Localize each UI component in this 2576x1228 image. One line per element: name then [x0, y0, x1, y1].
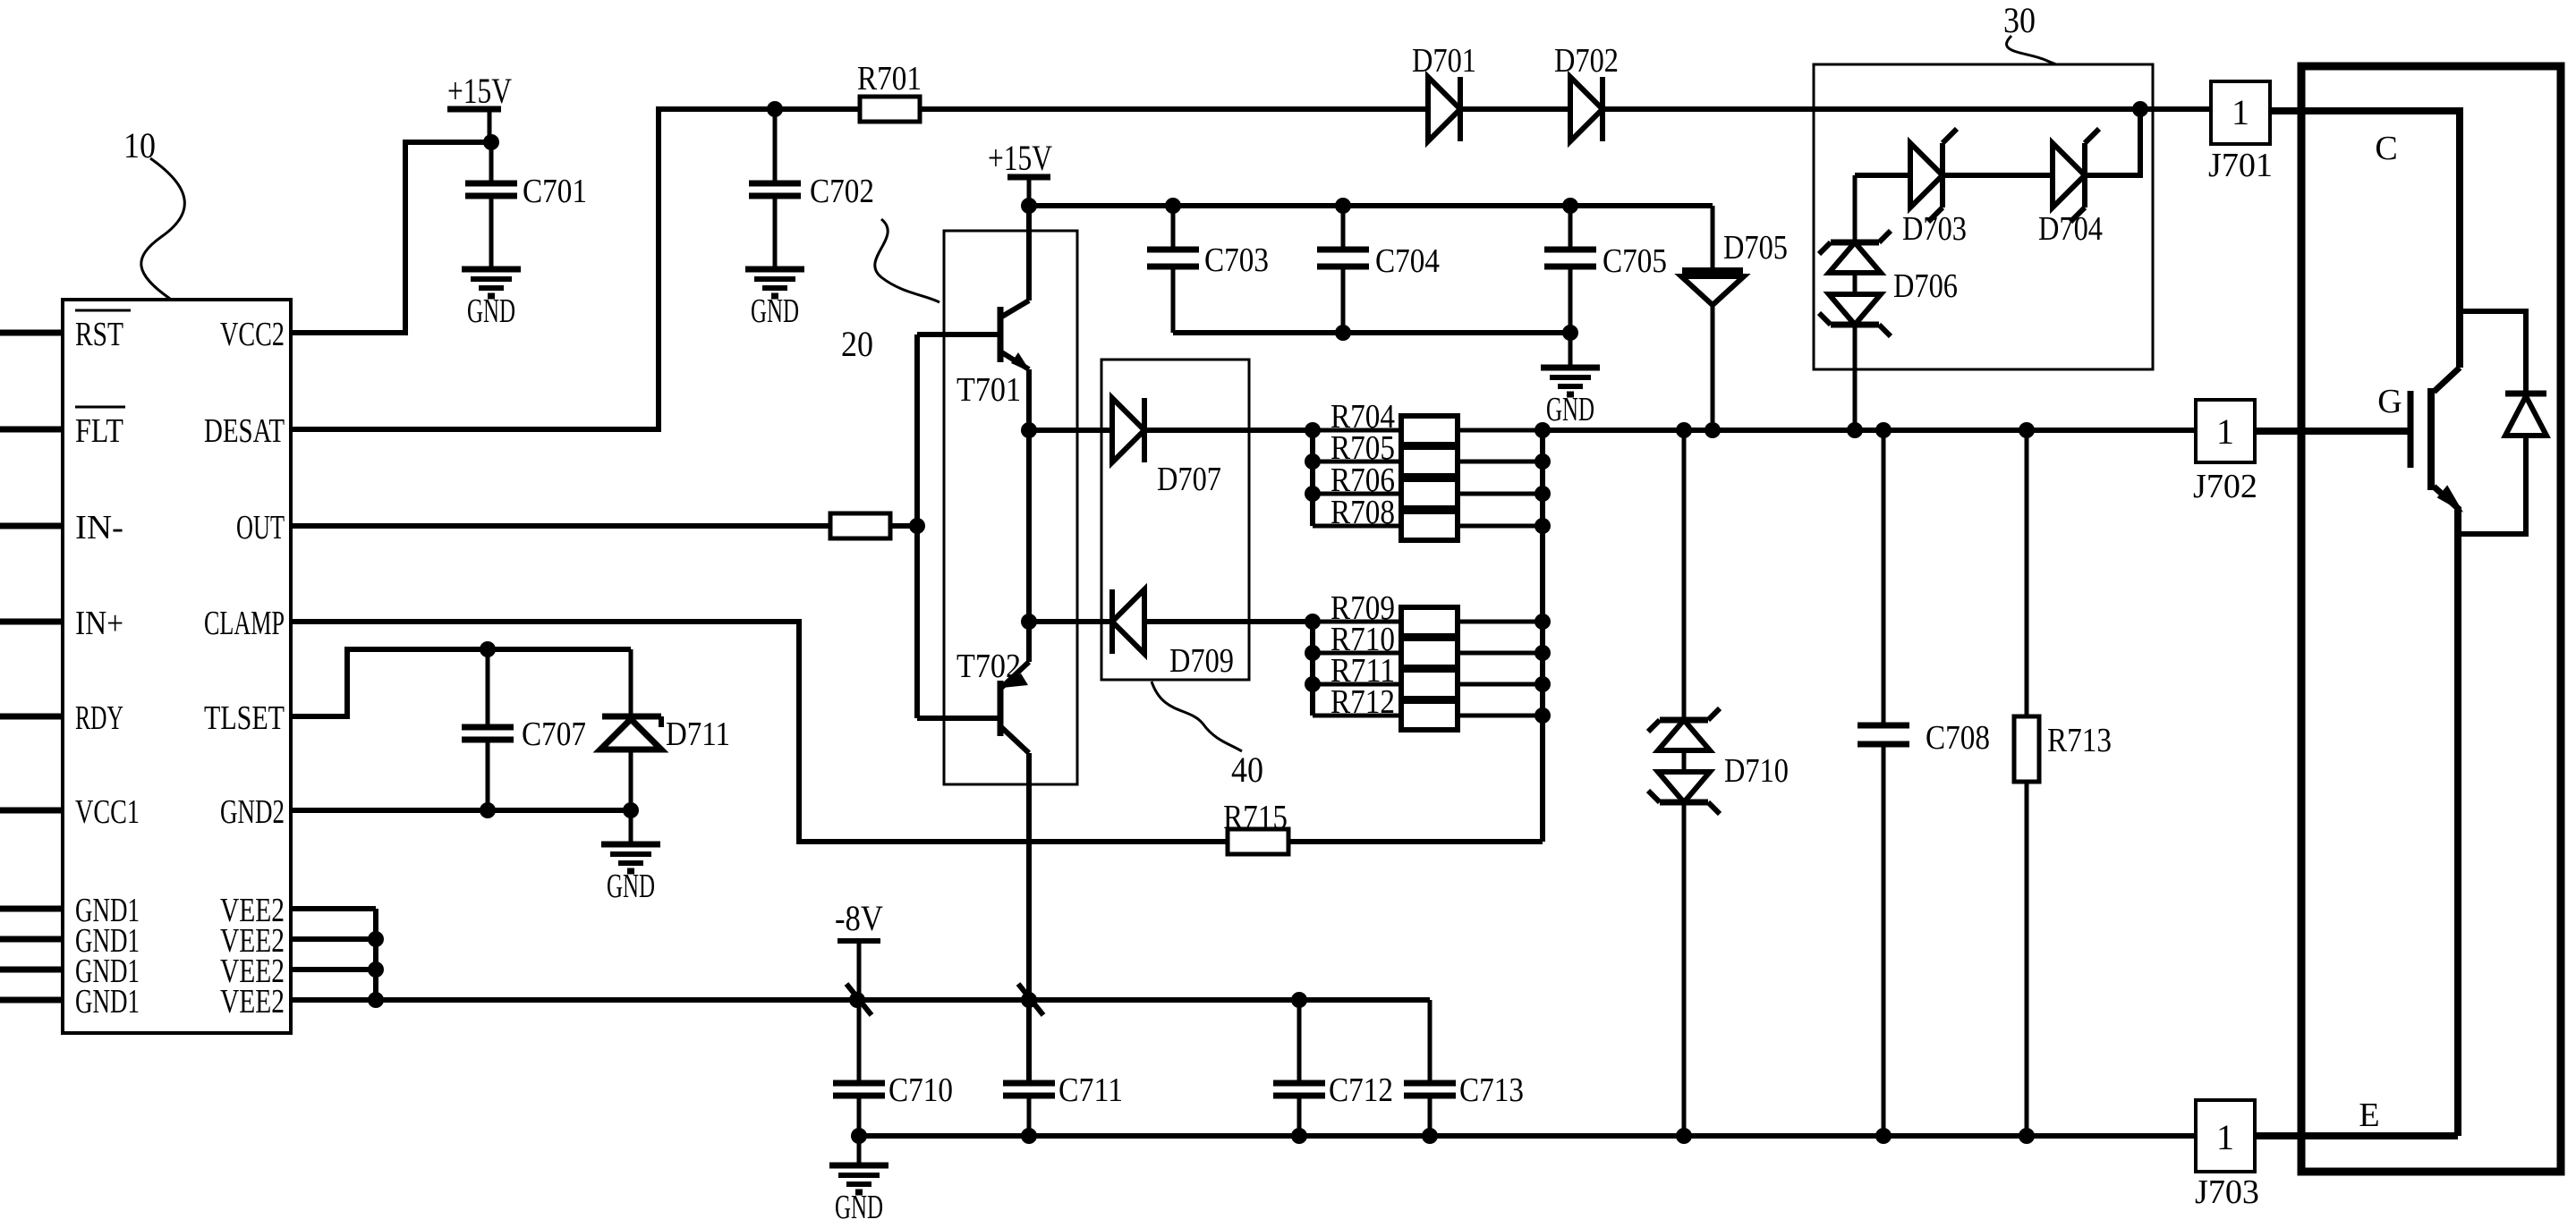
svg-text:C713: C713 [1459, 1071, 1524, 1109]
svg-text:C704: C704 [1375, 242, 1440, 280]
svg-text:1: 1 [2232, 92, 2249, 132]
svg-text:D711: D711 [666, 716, 730, 753]
svg-text:J702: J702 [2193, 468, 2257, 505]
svg-text:D705: D705 [1723, 229, 1788, 267]
svg-text:C707: C707 [522, 716, 586, 753]
svg-text:+15V: +15V [988, 138, 1052, 178]
svg-text:GND: GND [751, 292, 799, 330]
svg-text:R708: R708 [1331, 494, 1395, 531]
svg-text:G: G [2377, 383, 2402, 420]
svg-text:RDY: RDY [75, 699, 123, 737]
svg-text:CLAMP: CLAMP [204, 605, 285, 642]
svg-text:GND1: GND1 [75, 983, 140, 1021]
svg-text:C701: C701 [523, 173, 587, 210]
svg-text:GND: GND [607, 868, 655, 905]
svg-text:C703: C703 [1204, 241, 1269, 279]
svg-text:+15V: +15V [447, 71, 512, 111]
svg-text:1: 1 [2216, 411, 2234, 452]
svg-text:D704: D704 [2038, 210, 2103, 248]
svg-text:30: 30 [2003, 0, 2036, 40]
svg-text:IN-: IN- [75, 509, 123, 546]
svg-text:D706: D706 [1893, 267, 1958, 305]
svg-text:DESAT: DESAT [204, 412, 285, 450]
svg-text:FLT: FLT [75, 412, 123, 450]
svg-text:J701: J701 [2208, 147, 2273, 184]
svg-text:R713: R713 [2047, 722, 2112, 759]
svg-text:T701: T701 [956, 371, 1021, 409]
svg-text:GND2: GND2 [220, 793, 285, 831]
svg-text:C708: C708 [1926, 719, 1990, 757]
svg-text:GND: GND [1546, 391, 1594, 428]
svg-text:VCC1: VCC1 [75, 793, 140, 831]
svg-text:IN+: IN+ [75, 605, 123, 642]
svg-text:20: 20 [841, 324, 873, 364]
svg-text:C711: C711 [1058, 1071, 1123, 1109]
svg-text:VEE2: VEE2 [220, 983, 285, 1021]
svg-text:-8V: -8V [835, 898, 883, 938]
svg-text:RST: RST [75, 316, 123, 353]
svg-text:D710: D710 [1724, 752, 1789, 790]
svg-text:R715: R715 [1223, 799, 1288, 836]
svg-text:C705: C705 [1603, 242, 1667, 280]
svg-text:40: 40 [1231, 750, 1263, 790]
svg-text:D709: D709 [1169, 642, 1234, 680]
svg-text:TLSET: TLSET [204, 699, 285, 737]
svg-text:VCC2: VCC2 [220, 316, 285, 353]
svg-text:1: 1 [2216, 1117, 2234, 1157]
svg-text:D701: D701 [1412, 42, 1476, 80]
svg-text:D707: D707 [1157, 461, 1221, 498]
svg-text:R701: R701 [857, 60, 922, 97]
svg-text:OUT: OUT [236, 509, 285, 546]
svg-text:D702: D702 [1554, 42, 1619, 80]
svg-text:D703: D703 [1902, 210, 1967, 248]
svg-text:C: C [2375, 130, 2397, 167]
svg-text:E: E [2359, 1097, 2379, 1134]
svg-text:C710: C710 [888, 1071, 953, 1109]
svg-text:C712: C712 [1329, 1071, 1393, 1109]
svg-text:GND: GND [467, 292, 515, 330]
svg-text:J703: J703 [2195, 1173, 2259, 1211]
svg-text:R712: R712 [1331, 683, 1395, 721]
svg-text:C702: C702 [810, 173, 874, 210]
svg-text:GND: GND [835, 1189, 883, 1226]
